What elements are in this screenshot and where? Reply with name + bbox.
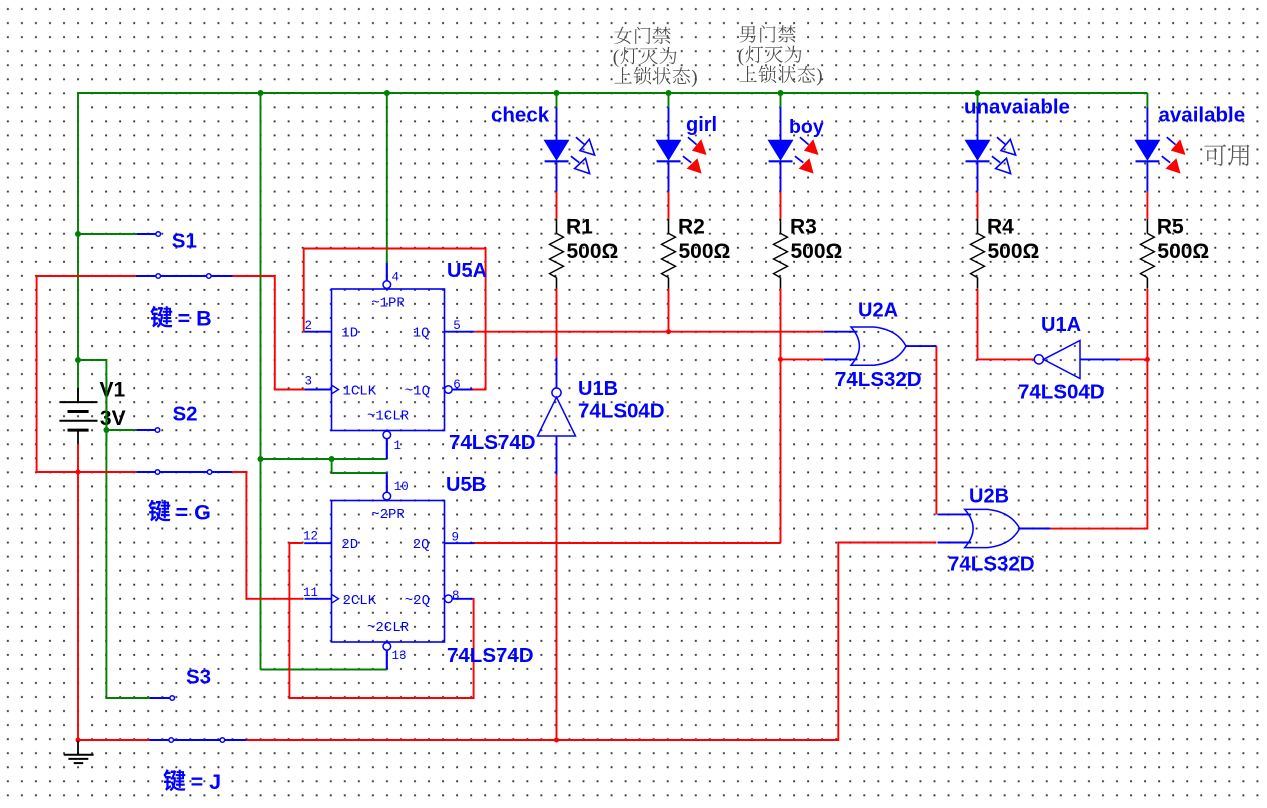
svg-text:74LS74D: 74LS74D xyxy=(447,644,534,667)
svg-text:available: available xyxy=(1159,104,1246,127)
node junction (331.6,459) xyxy=(329,456,335,462)
U5B pin leads xyxy=(304,475,474,670)
switch S2 terminal xyxy=(155,428,160,433)
U5B pin names xyxy=(341,507,430,636)
node rail junction U5A pin4 xyxy=(384,90,390,96)
svg-text:2CLK: 2CLK xyxy=(343,593,377,609)
wire S2 stub xyxy=(106,429,136,431)
node rail junction check LED xyxy=(554,90,560,96)
node J-row junction U1B input xyxy=(554,738,559,743)
resistor R3 xyxy=(774,219,788,289)
wire green vertical over battery labels xyxy=(105,378,107,442)
svg-text:1CLK: 1CLK xyxy=(343,384,377,400)
svg-text:74LS04D: 74LS04D xyxy=(1018,381,1105,404)
svg-text:check: check xyxy=(491,104,550,127)
wire R3 bottom down to 2Q net xyxy=(780,289,782,543)
svg-text:500Ω: 500Ω xyxy=(791,240,843,263)
svg-text:S1: S1 xyxy=(172,230,197,253)
node junction R2 on 1Q net xyxy=(666,329,671,334)
svg-text:R2: R2 xyxy=(678,216,705,239)
wire battery to ground xyxy=(77,444,79,741)
svg-text:500Ω: 500Ω xyxy=(1157,240,1209,263)
LED check xyxy=(544,108,595,219)
svg-text:74LS04D: 74LS04D xyxy=(578,400,665,423)
resistor R5 xyxy=(1140,219,1154,289)
svg-text:500Ω: 500Ω xyxy=(679,240,731,263)
wire U1B input down xyxy=(556,475,558,740)
OR gate U2A xyxy=(824,327,937,365)
wire U5A 1Q to U2A input A xyxy=(474,331,824,333)
wire to U5B pin13 xyxy=(261,669,387,671)
wire U1A input red segment xyxy=(1120,358,1147,360)
svg-text:): ) xyxy=(691,67,697,88)
node VCC-S1 junction xyxy=(75,231,81,237)
svg-text:3: 3 xyxy=(305,375,313,389)
svg-text:12: 12 xyxy=(303,530,318,544)
svg-text:74LS74D: 74LS74D xyxy=(449,431,536,454)
switch key-G (closed) xyxy=(136,470,232,475)
svg-text:11: 11 xyxy=(303,586,318,600)
svg-text:S2: S2 xyxy=(173,403,198,426)
wire R2 bottom xyxy=(668,289,670,332)
svg-text:girl: girl xyxy=(686,114,717,136)
svg-text:~2CLR: ~2CLR xyxy=(367,620,410,636)
wire R1 bottom to U1B output xyxy=(556,289,558,358)
svg-text:): ) xyxy=(816,66,822,87)
LED girl xyxy=(656,108,707,219)
svg-text:1Q: 1Q xyxy=(413,325,430,341)
wire key J row to U2B input xyxy=(246,543,936,741)
svg-text:~1PR: ~1PR xyxy=(371,295,405,311)
wire ground row to J switch xyxy=(78,739,150,741)
D flip-flop U5B body xyxy=(332,501,445,643)
label key = B xyxy=(150,306,211,331)
svg-text:U5A: U5A xyxy=(447,260,487,282)
U5A pin numbers xyxy=(305,270,461,453)
wire available column vertical xyxy=(1146,289,1148,530)
svg-text:U1B: U1B xyxy=(578,378,618,400)
svg-text:1: 1 xyxy=(394,439,402,453)
svg-text:2: 2 xyxy=(305,319,313,333)
svg-text:500Ω: 500Ω xyxy=(567,240,619,263)
svg-text:R4: R4 xyxy=(987,216,1014,239)
inverter U1B (output up) xyxy=(538,357,576,474)
wire U2B output to available column xyxy=(1048,528,1148,530)
svg-text:4: 4 xyxy=(392,270,400,284)
node VCC-S2 junction xyxy=(103,427,109,433)
ground symbol xyxy=(64,741,94,763)
svg-text:(: ( xyxy=(738,45,744,66)
svg-text:unavaiable: unavaiable xyxy=(964,96,1070,119)
node VCC-battery junction xyxy=(75,357,81,363)
wire rail to U5A pin4 xyxy=(386,93,388,263)
node rail junction x260 xyxy=(258,90,264,96)
svg-text:boy: boy xyxy=(789,116,824,138)
svg-text:U5B: U5B xyxy=(446,474,486,496)
svg-text:74LS32D: 74LS32D xyxy=(835,368,922,391)
svg-text:13: 13 xyxy=(392,649,407,663)
label key = G xyxy=(148,500,210,525)
annotation women door text xyxy=(613,27,698,88)
node rail junction girl LED xyxy=(666,90,672,96)
svg-text:U2A: U2A xyxy=(858,300,898,322)
svg-text:9: 9 xyxy=(452,531,460,545)
svg-text:V1: V1 xyxy=(100,379,126,402)
svg-text:~2PR: ~2PR xyxy=(371,507,405,523)
resistor R4 xyxy=(971,219,985,289)
svg-text:6: 6 xyxy=(453,378,461,392)
OR gate U2B xyxy=(938,509,1051,547)
annotation available text xyxy=(1204,144,1249,165)
LED unavaiable xyxy=(965,108,1016,219)
node junction R3 U2A input B xyxy=(778,357,783,362)
svg-text:S3: S3 xyxy=(186,666,211,689)
wire VCC top rail xyxy=(78,92,1147,94)
svg-text:10: 10 xyxy=(394,480,409,494)
wire U2A output down to U2B input A xyxy=(935,346,937,514)
svg-text:2D: 2D xyxy=(341,537,358,553)
svg-text:~1CLR: ~1CLR xyxy=(367,409,410,425)
resistor R1 xyxy=(550,219,564,289)
U5A pin leads xyxy=(304,263,474,458)
resistor R2 xyxy=(662,219,676,289)
switch key-J (closed) xyxy=(150,738,247,743)
svg-text:8: 8 xyxy=(452,589,460,603)
wire to U5B pin10 xyxy=(332,459,387,473)
wire key G to U5B 2CLK xyxy=(232,472,303,599)
annotation men door text xyxy=(738,25,823,86)
node rail junction boy LED xyxy=(778,90,784,96)
svg-text:U2B: U2B xyxy=(969,486,1009,508)
svg-text:= G: = G xyxy=(176,501,211,525)
LED available xyxy=(1134,108,1185,219)
battery V1 3V xyxy=(59,388,97,444)
U5B pin numbers xyxy=(303,480,460,663)
switch S3 terminal xyxy=(170,696,175,701)
svg-text:~2Q: ~2Q xyxy=(405,593,430,609)
wire U5A feedback box ~1Q to 1D xyxy=(304,249,486,390)
svg-text:500Ω: 500Ω xyxy=(988,240,1040,263)
wire to U5A pin1 xyxy=(261,458,387,460)
wire rail to girl LED xyxy=(668,93,670,108)
wire rail to check LED xyxy=(556,93,558,108)
wire rail corner to available LED xyxy=(1146,93,1148,108)
svg-text:= J: = J xyxy=(191,770,222,794)
svg-text:2Q: 2Q xyxy=(413,537,430,553)
wire rail to unavailable LED xyxy=(977,93,979,108)
svg-text:R5: R5 xyxy=(1157,216,1184,239)
node battery minus junction xyxy=(76,470,81,475)
wire VCC to S3 vertical xyxy=(78,360,150,698)
svg-text:1D: 1D xyxy=(341,325,358,341)
node ground junction xyxy=(76,738,81,743)
svg-text:R3: R3 xyxy=(790,216,817,239)
switch S1 terminal xyxy=(156,232,161,237)
inverter U1A (output left) xyxy=(1034,341,1120,379)
svg-text:5: 5 xyxy=(453,319,461,333)
wire U1A output to R4 xyxy=(978,358,1035,360)
wire PR-CLR net vertical x260 xyxy=(260,93,262,670)
wire R3 junction to U2A input B xyxy=(781,358,824,360)
wire U5B 2Q to R3 column xyxy=(473,542,781,544)
svg-text:~1Q: ~1Q xyxy=(405,384,430,400)
node rail junction unavailable LED xyxy=(975,90,981,96)
label key = J xyxy=(163,769,221,794)
wire battery minus net: left loop xyxy=(37,276,137,472)
svg-text:R1: R1 xyxy=(566,216,593,239)
svg-text:= B: = B xyxy=(178,307,212,331)
LED boy xyxy=(768,108,819,219)
svg-text:U1A: U1A xyxy=(1041,314,1081,336)
svg-text:(: ( xyxy=(613,47,619,68)
svg-text:74LS32D: 74LS32D xyxy=(948,553,1035,576)
wire key B to U5A 1CLK xyxy=(232,276,304,390)
wire VCC left vertical to battery xyxy=(77,92,79,402)
wire U5B feedback box ~2Q to 2D xyxy=(289,543,473,698)
svg-text:3V: 3V xyxy=(100,407,126,430)
U5A pin names xyxy=(341,295,430,424)
wire R4 bottom xyxy=(977,289,979,359)
wire rail to boy LED xyxy=(780,93,782,108)
switch key-B (closed) xyxy=(136,274,232,279)
node junction U1A input / R5 / U2B out xyxy=(1145,357,1150,362)
wire S1 stub xyxy=(78,233,137,235)
node PR-CLR junction (260,459) xyxy=(258,456,264,462)
D flip-flop U5A body xyxy=(332,289,445,431)
